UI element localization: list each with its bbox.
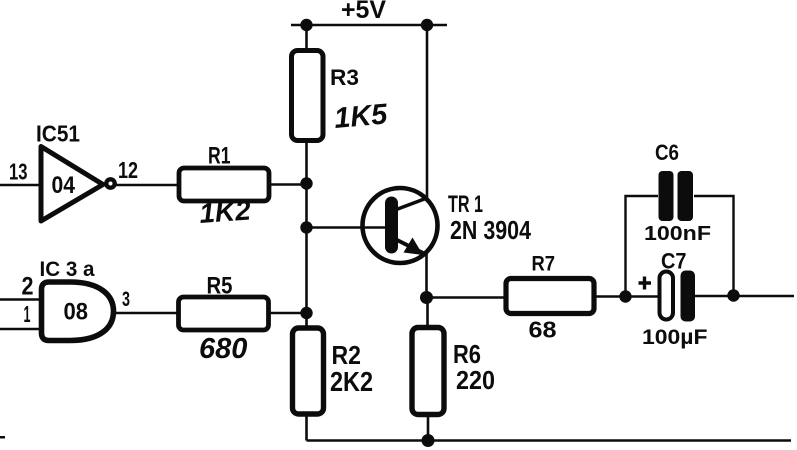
- svg-text:R7: R7: [532, 252, 556, 276]
- junction: R1 node: [300, 177, 312, 189]
- svg-text:+5V: +5V: [341, 0, 386, 24]
- wire: +5V top rail: [291, 24, 447, 27]
- transistor TR1 emitter stroke: [395, 239, 425, 254]
- svg-text:2: 2: [22, 273, 34, 301]
- inverter gate IC51 (04): [41, 147, 103, 222]
- wire: R1 to bus: [269, 183, 307, 186]
- wire: emitter node to R7: [427, 296, 508, 298]
- wire: C6 to right branch down: [694, 196, 734, 296]
- wire: gate output to R5: [114, 312, 180, 314]
- resistor R6: [412, 328, 444, 415]
- capacitor C7 plate positive (hollow): [660, 272, 674, 320]
- junction: cap network left node: [619, 290, 631, 302]
- svg-text:12: 12: [118, 157, 138, 183]
- capacitor C6 plate left: [659, 171, 674, 221]
- resistor R5: [179, 297, 269, 330]
- svg-text:220: 220: [456, 365, 495, 395]
- resistor R7: [506, 279, 594, 314]
- stray mark bottom-left: [0, 436, 5, 439]
- wire: inverter input pin 13: [0, 184, 41, 187]
- svg-text:R3: R3: [330, 65, 359, 90]
- junction: R5 node: [300, 307, 312, 319]
- wire: R5 to bus: [269, 312, 307, 314]
- junction: top rail / collector branch: [421, 19, 433, 31]
- svg-text:100nF: 100nF: [644, 222, 711, 245]
- wire: left node to C7: [626, 295, 662, 297]
- wire: AND gate input pin 1: [0, 328, 42, 331]
- transistor TR1 base bar: [385, 197, 398, 254]
- wire: R6 bottom to ground rail: [427, 415, 430, 441]
- svg-text:1K5: 1K5: [333, 98, 390, 135]
- capacitor C6 plate right: [678, 171, 694, 221]
- svg-text:2N 3904: 2N 3904: [450, 215, 531, 245]
- inverter output bubble: [106, 179, 114, 187]
- wire: AND gate input pin 2: [0, 298, 42, 301]
- wire: emitter node down to R6: [426, 298, 429, 330]
- svg-text:04: 04: [52, 172, 76, 199]
- transistor TR1 collector stroke: [395, 198, 427, 210]
- svg-text:IC 3 a: IC 3 a: [40, 257, 96, 281]
- svg-text:68: 68: [529, 317, 557, 343]
- wire: vertical bus R3 bottom to R2 top: [305, 141, 308, 330]
- svg-text:TR 1: TR 1: [448, 191, 483, 218]
- wire: base node to transistor base: [307, 226, 389, 228]
- junction: cap network right node: [727, 289, 739, 301]
- svg-text:IC51: IC51: [36, 121, 80, 147]
- wire: R7 to cap left node: [594, 295, 625, 297]
- resistor R1: [179, 168, 269, 201]
- svg-text:R5: R5: [207, 273, 233, 300]
- polarity + of C7: [639, 277, 652, 290]
- wire: left branch up to C6: [626, 196, 659, 297]
- capacitor C7 plate negative (solid): [681, 271, 696, 322]
- junction: emitter node: [420, 291, 433, 304]
- wire: collector to +5V rail: [426, 25, 429, 199]
- svg-text:R1: R1: [208, 143, 231, 170]
- resistor R3: [292, 51, 324, 141]
- wire: bubble to R1: [117, 184, 181, 187]
- junction: top rail / R3: [300, 19, 312, 31]
- transistor TR1 circle: [363, 188, 438, 263]
- wire: emitter down to output node: [425, 253, 428, 298]
- svg-text:2K2: 2K2: [330, 366, 373, 397]
- junction: base node: [300, 221, 312, 233]
- svg-text:1: 1: [24, 301, 31, 327]
- transistor TR1 emitter arrow: [404, 238, 424, 256]
- svg-text:13: 13: [9, 159, 28, 185]
- wire: output to right edge: [734, 295, 795, 297]
- AND gate IC3a (08): [42, 282, 114, 341]
- svg-text:680: 680: [199, 333, 247, 365]
- wire: R2 bottom to ground rail: [305, 414, 308, 441]
- svg-text:100µF: 100µF: [642, 326, 708, 349]
- wire: bottom ground rail: [307, 439, 792, 442]
- resistor R2: [293, 328, 324, 414]
- svg-text:3: 3: [122, 288, 130, 311]
- wire: rail to R3 top: [305, 25, 308, 52]
- junction: R6 / ground rail: [422, 434, 435, 447]
- svg-text:C6: C6: [655, 140, 679, 165]
- svg-text:08: 08: [64, 299, 89, 326]
- svg-text:1K2: 1K2: [198, 194, 252, 229]
- wire: C7 to right node: [695, 295, 734, 297]
